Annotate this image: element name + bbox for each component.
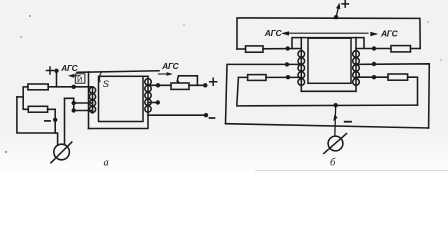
resistor R4 row1 left bbox=[246, 46, 264, 52]
wire row3 left bbox=[237, 77, 301, 106]
wire top loop b bbox=[237, 18, 420, 49]
svg-text:S: S bbox=[103, 79, 110, 90]
node row2 left tap bbox=[285, 62, 289, 66]
resistor R7 row3 right bbox=[388, 74, 408, 80]
node plus junction b bbox=[334, 15, 338, 19]
wire top link a bbox=[77, 71, 159, 73]
wire row1 left bbox=[237, 48, 301, 51]
node tap upper bbox=[72, 101, 76, 105]
wire control row bbox=[48, 86, 92, 88]
label winding I box bbox=[75, 74, 85, 84]
wire tap bracket bbox=[65, 98, 74, 110]
svg-text:АГС: АГС bbox=[60, 63, 78, 73]
node minus junction b bbox=[334, 103, 338, 107]
galvanometer b bbox=[324, 134, 347, 154]
arrow minus b bbox=[333, 115, 337, 122]
node dead tap bbox=[148, 100, 160, 104]
winding b left bbox=[298, 38, 305, 92]
core a bbox=[99, 76, 144, 121]
wire outer bottom b bbox=[226, 124, 429, 128]
node output tap plus bbox=[156, 83, 160, 87]
label S winding bbox=[100, 73, 110, 91]
winding a left bbox=[89, 87, 95, 113]
wire output minus row bbox=[148, 114, 206, 116]
label plus a input bbox=[47, 67, 54, 74]
svg-text:АГС: АГС bbox=[380, 29, 399, 39]
node row3 left tap bbox=[286, 75, 290, 79]
node plus terminal a bbox=[54, 69, 58, 73]
node row1 right tap bbox=[372, 46, 376, 50]
node row2 right tap bbox=[372, 62, 376, 66]
resistor R5 row1 right bbox=[391, 46, 411, 52]
wire R2 right to minus terminal bbox=[48, 109, 56, 133]
arrow AGS left a bbox=[68, 74, 80, 78]
wire plus vertical bbox=[56, 71, 58, 87]
resistor R1 bbox=[28, 84, 48, 90]
wire top bus b bbox=[292, 38, 364, 49]
winding b right bbox=[353, 38, 360, 92]
label plus a output bbox=[210, 78, 217, 85]
wire outer left vertical a bbox=[88, 72, 90, 129]
wire row2 left to outer loop bbox=[226, 64, 302, 123]
wire minus terminal b bbox=[334, 105, 337, 136]
wire inner bottom b bbox=[238, 104, 417, 107]
resistor R2 bbox=[28, 106, 47, 112]
wire pot to plus node bbox=[189, 84, 205, 86]
galvanometer a bbox=[51, 142, 72, 163]
wire R1 left stub bbox=[23, 87, 28, 109]
arrow AGS right a bbox=[159, 72, 173, 76]
node output plus terminal bbox=[203, 83, 207, 87]
label minus b bbox=[345, 121, 351, 123]
potentiometer R3 bbox=[171, 83, 189, 89]
wire winding top stub a bbox=[143, 75, 148, 77]
resistor R6 row3 left bbox=[248, 75, 266, 81]
arrow AGS line b bbox=[281, 31, 378, 36]
winding a right bbox=[145, 76, 151, 115]
wire bottom return a bbox=[89, 115, 149, 128]
arrow plus terminal b bbox=[336, 3, 340, 18]
label plus b bbox=[342, 1, 348, 7]
wiper loop R3 bbox=[176, 76, 197, 86]
wire left vertical to galvanometer bbox=[17, 97, 58, 145]
label minus a output bbox=[210, 117, 215, 119]
wire output plus row bbox=[148, 84, 171, 86]
wire bottom bus b bbox=[301, 90, 356, 92]
node minus terminal a bbox=[53, 118, 57, 122]
bottom scan edge bbox=[255, 169, 448, 171]
svg-text:АГС: АГС bbox=[161, 61, 179, 71]
svg-text:И: И bbox=[77, 75, 82, 84]
svg-text:АГС: АГС bbox=[264, 28, 283, 38]
scan speckles bbox=[5, 15, 442, 153]
node junction on control row bbox=[72, 85, 76, 89]
svg-text:б: б bbox=[330, 158, 336, 169]
svg-text:а: а bbox=[104, 158, 109, 169]
wire left branch bbox=[17, 96, 23, 98]
node row3 right tap bbox=[372, 75, 376, 79]
node output minus bbox=[204, 113, 208, 117]
core b bbox=[308, 38, 351, 83]
label minus a input bbox=[45, 120, 50, 122]
node tap lower bbox=[72, 108, 76, 112]
wire row1 right bbox=[356, 48, 420, 50]
node row1 left tap bbox=[286, 46, 290, 50]
wire galvanometer feed bbox=[64, 98, 66, 145]
wire tap stub upper bbox=[74, 102, 93, 104]
wire row3 right bbox=[356, 77, 418, 105]
wire row2 right to outer loop bbox=[356, 64, 429, 128]
wire tap stub lower bbox=[74, 110, 93, 112]
